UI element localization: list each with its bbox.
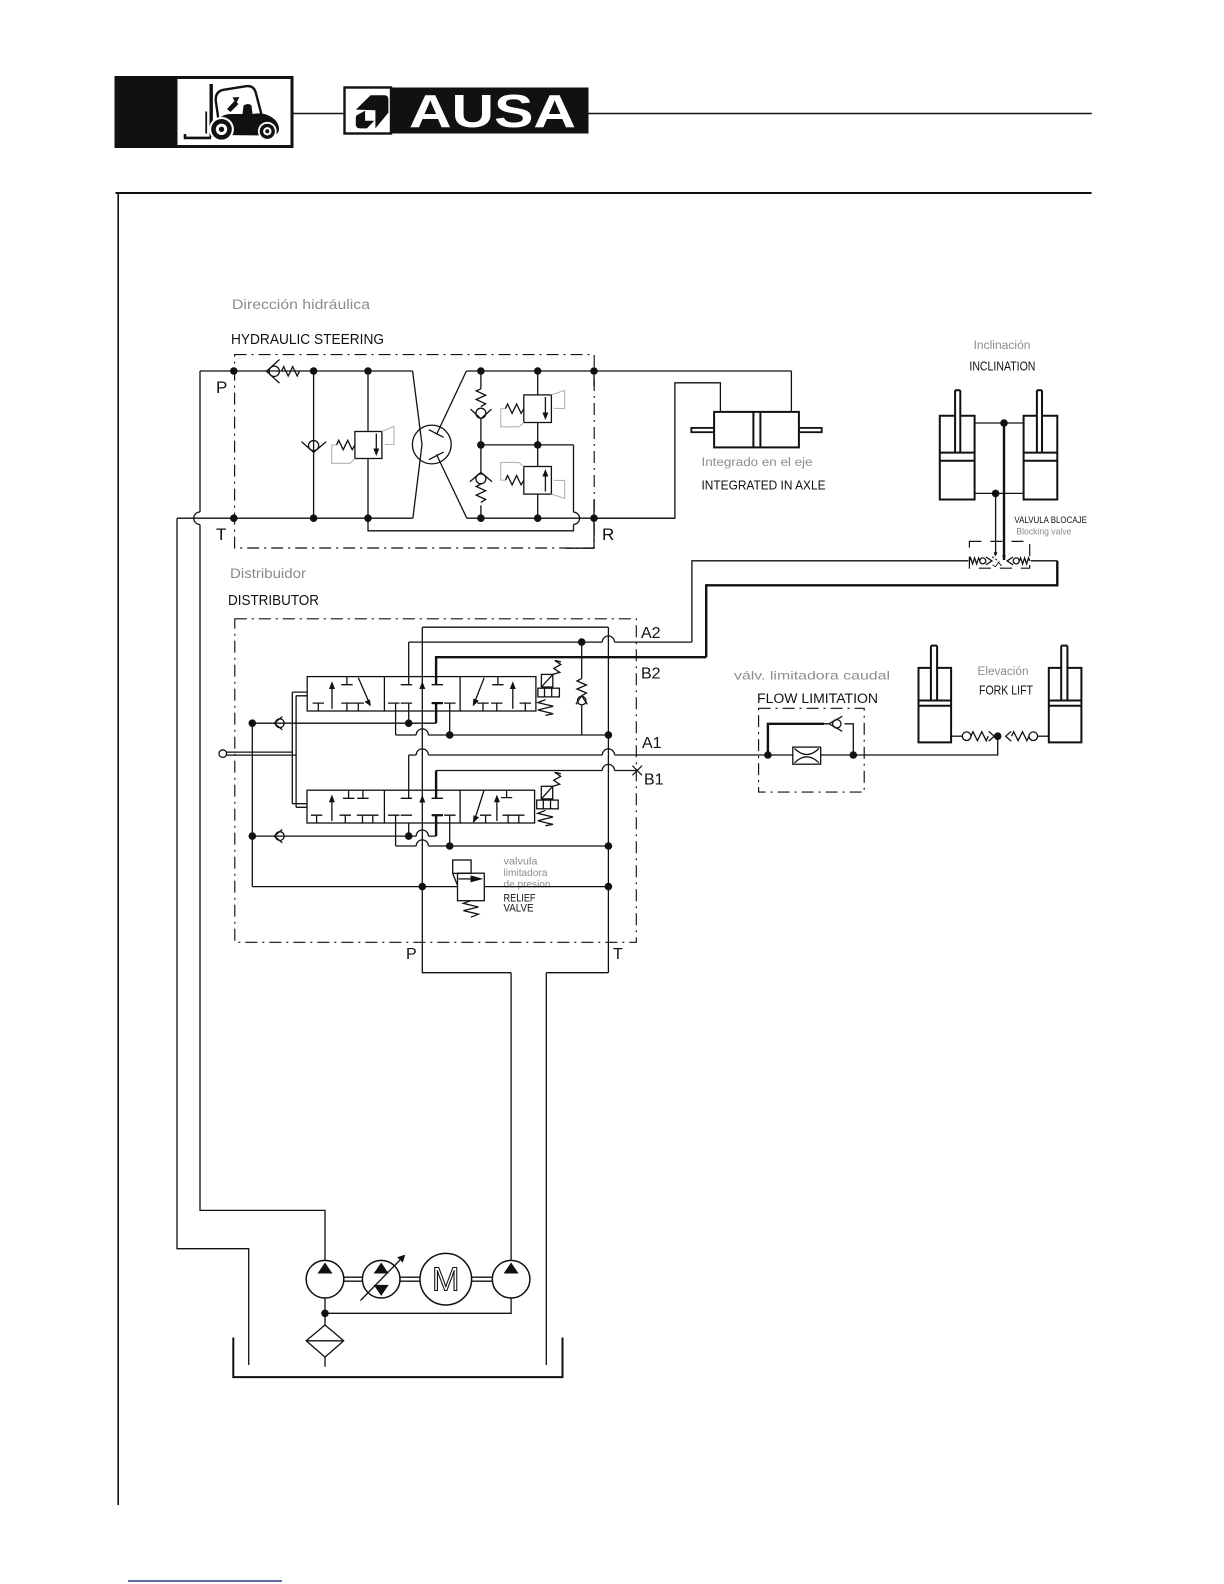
suction line [325, 1298, 511, 1313]
junction dots distributor [249, 638, 772, 890]
svg-text:A2: A2 [641, 625, 661, 642]
frame left rule [117, 192, 119, 1505]
upper S1 up arrow [331, 687, 333, 709]
blocking valve right spring [1019, 558, 1029, 564]
flow limitation dashed box [759, 708, 865, 792]
stem A2 to upper bank [408, 642, 410, 684]
steering cylinder (integrated in axle) [691, 412, 821, 448]
frame top rule [116, 192, 1092, 194]
svg-text:limitadora: limitadora [504, 868, 548, 879]
wire P gallery vertical (through both banks) [421, 627, 423, 886]
AUSA logo icon glyph [356, 95, 389, 128]
relief valve column right [501, 371, 565, 518]
check valve CV2 on branch 1 [302, 441, 327, 453]
check valve to A2 node [576, 642, 588, 735]
lower S2 bottom port bars [388, 814, 456, 816]
svg-text:Dirección hidráulica: Dirección hidráulica [232, 297, 371, 312]
relief valve RV3 [524, 467, 552, 495]
steering wheel [227, 101, 239, 113]
wire relief gallery [252, 886, 608, 888]
wire A2 feed to blocking valve [692, 561, 969, 642]
svg-text:M: M [432, 1261, 460, 1298]
wire hop wire2 over P gallery [416, 729, 428, 735]
wire P out to axle [790, 371, 792, 412]
wire hop P-rail over T-wire [194, 512, 200, 525]
svg-text:VALVE: VALVE [504, 903, 534, 915]
check valve CV1 on P line [267, 360, 300, 384]
flow restrictor [793, 747, 821, 764]
blocking valve right check [1013, 558, 1019, 564]
wire check column [480, 371, 482, 518]
wire T down to port [546, 972, 608, 974]
main relief valve [453, 860, 485, 917]
wire vertical branch 1 [313, 371, 315, 518]
tank [233, 1338, 562, 1378]
wire T rail down-left (to tank) [177, 518, 249, 1365]
lower S1 top port bars [343, 790, 369, 798]
wire P line right segment [466, 370, 791, 372]
footer blue rule [128, 1580, 282, 1582]
body [214, 104, 280, 136]
relief valve RV1 [332, 426, 394, 463]
wire hop wire1-lower over P gallery [416, 830, 428, 836]
wire T line left segment [177, 517, 413, 519]
svg-text:INCLINATION: INCLINATION [969, 360, 1035, 374]
check valve column (shock valves) [470, 371, 492, 518]
pump 1 (steering) [306, 1260, 344, 1298]
electric motor M [420, 1253, 472, 1305]
wire P down to port [422, 887, 511, 973]
inlet port circle [219, 750, 227, 758]
lower S2 top port bars [401, 797, 443, 799]
forklift rear wheel [258, 122, 277, 141]
svg-text:válv. limitadora caudal: válv. limitadora caudal [734, 669, 890, 683]
wire through restrictor [768, 754, 853, 756]
wire bold center down to blocking valve [1003, 423, 1005, 560]
upper S1 diagonal arrow [358, 678, 368, 701]
inlet rail to lower bank [292, 804, 307, 808]
relief valve RV2 [524, 395, 552, 423]
svg-text:P: P [406, 946, 417, 963]
svg-text:INTEGRATED IN AXLE: INTEGRATED IN AXLE [702, 479, 826, 493]
inlet rail vertical pair [292, 692, 296, 807]
stem upper S2 bottom to wire1 [408, 703, 410, 724]
bypass check line (bold) [768, 724, 824, 755]
tilt cylinder left [940, 390, 975, 499]
wire thin down to blocking valve [995, 493, 997, 552]
check valve CV3 [476, 408, 486, 418]
junction dots flow [850, 732, 1002, 758]
fork cylinder left [919, 646, 952, 743]
svg-text:AUSA: AUSA [409, 85, 576, 137]
wire A2 [409, 641, 692, 643]
upper S3 up arrow [512, 687, 514, 709]
steering unit bowtie right-top line [437, 371, 467, 435]
stem upper S2 outer bottoms to wire2 [396, 703, 450, 736]
lower S3 top port bar [501, 790, 512, 797]
upper S3 diagonal arrow [475, 678, 484, 701]
junction dots tilt [992, 419, 1008, 497]
pilot check valve upper [274, 717, 284, 730]
tilt cylinder right [1024, 390, 1058, 499]
svg-text:Blocking valve: Blocking valve [1016, 527, 1071, 537]
stem lower S2 outer bottom to wire2-lower [449, 815, 451, 846]
svg-text:valvula: valvula [504, 857, 538, 868]
steering unit tick bottom [429, 452, 444, 460]
svg-text:R: R [602, 525, 614, 544]
svg-text:T: T [216, 525, 226, 544]
wire blocking right port link [1031, 560, 1058, 562]
upper bank solenoid actuator [538, 660, 561, 715]
AUSA logo icon box [345, 88, 392, 134]
pump 2 (distributor) [492, 1260, 530, 1298]
steering unit rotor circle [412, 425, 451, 464]
wire tilt bottom ports [975, 492, 1024, 494]
lower S1 up arrow [331, 800, 333, 822]
svg-text:DISTRIBUTOR: DISTRIBUTOR [228, 593, 319, 609]
junction dot suction [321, 1310, 329, 1318]
forklift icon [185, 84, 279, 138]
mast [209, 84, 212, 137]
upper S2 top port bars [401, 684, 443, 686]
blocking valve left spring [969, 558, 980, 564]
svg-text:Inclinación: Inclinación [974, 340, 1031, 352]
pilot check valve lower [274, 830, 284, 843]
wire B2 feed to blocking valve (bold) [706, 561, 1057, 657]
svg-text:de presion: de presion [504, 880, 551, 891]
wire2 lower (to T gallery) [396, 815, 609, 846]
fork [185, 134, 211, 138]
wire open-center top link [422, 626, 608, 628]
forklift badge outer box [116, 78, 292, 147]
steering unit bowtie right-bottom line [437, 455, 467, 519]
forklift badge black panel [115, 76, 178, 148]
wire R stub at box edge [566, 371, 594, 548]
upper S2 up arrowhead (P) [419, 681, 425, 689]
svg-text:T: T [613, 946, 623, 963]
wire A1 to fork cylinders [853, 736, 997, 755]
shaft motor-pump2 [472, 1277, 493, 1281]
svg-text:Integrado en el eje: Integrado en el eje [702, 457, 813, 469]
svg-text:HYDRAULIC STEERING: HYDRAULIC STEERING [231, 332, 384, 348]
blocking valve dashed box [969, 541, 1029, 568]
wire T return to tank [545, 973, 547, 1365]
lower bank solenoid actuator [537, 772, 561, 825]
shaft variable-motor [400, 1277, 420, 1281]
stem A1 into lower bank [408, 755, 410, 798]
lower S3 diagonal arrow [475, 790, 484, 818]
upper S2 bottom port bars [388, 702, 456, 704]
valve bank upper body [307, 677, 536, 711]
wire hop A1 over P gallery [416, 749, 428, 755]
stem lower S2 bottom to wire1-lower [408, 823, 410, 836]
svg-text:P: P [216, 378, 227, 397]
inlet rail to upper bank [292, 692, 307, 696]
valve bank lower body [307, 790, 535, 823]
plug X on B1 [632, 766, 642, 776]
fork cylinder right [1049, 646, 1082, 743]
wire hop wire2-lower over P gallery [416, 840, 428, 846]
lower S3 up arrow [496, 800, 498, 821]
svg-text:VALVULA BLOCAJE: VALVULA BLOCAJE [1014, 515, 1087, 525]
shaft pump1-variable [344, 1277, 363, 1281]
spring bottom check [476, 484, 485, 502]
wire P rail down-left (to pump) [200, 371, 325, 1260]
upper S1 top port bar [341, 677, 352, 685]
wire B2 bold [436, 657, 706, 684]
spring top check [476, 389, 485, 407]
wire hop bypass over T-wire [574, 512, 580, 524]
junction dots steering [230, 367, 598, 522]
stem lower S2 bold bottom [435, 815, 437, 836]
wire vertical branch 2 (relief) [367, 371, 369, 518]
lower S1 bottom port bars [311, 815, 379, 823]
AUSA logo black panel [392, 88, 589, 134]
velocity fuse left [951, 731, 994, 741]
stem upper S2 bold bottom [435, 703, 437, 724]
distributor dashed enclosure [235, 619, 637, 943]
upper S1 bottom port bars [313, 703, 364, 711]
svg-text:B1: B1 [644, 772, 664, 789]
wire2 upper (to T gallery) [396, 734, 609, 736]
header rule right [589, 113, 1092, 115]
wire A1 [409, 754, 768, 756]
wire hop B1 over T gallery [602, 764, 614, 770]
wire mid-link bypass down [368, 445, 574, 531]
blocking valve left check [980, 558, 986, 564]
blocking valve pilot lines [993, 553, 1000, 562]
header connector line left [292, 113, 345, 115]
wire P riser to pump2 [510, 973, 512, 1261]
upper S3 bottom port bars [477, 703, 531, 711]
steering unit tick top [429, 430, 444, 438]
wire T line right segment [467, 517, 675, 519]
svg-text:A1: A1 [642, 735, 662, 752]
wire T gallery vertical right [607, 627, 609, 973]
suction filter [324, 1313, 326, 1366]
svg-text:B2: B2 [641, 666, 661, 683]
forklift front wheel [209, 117, 234, 142]
steering dashed enclosure [235, 355, 595, 548]
wire1 upper (to pilot check) [252, 722, 436, 724]
wire B1 [436, 770, 637, 772]
svg-text:FLOW LIMITATION: FLOW LIMITATION [757, 691, 878, 706]
steering unit bowtie left lines [413, 371, 422, 518]
wire hop A1 over T gallery [602, 749, 614, 755]
inlet double pipe [227, 752, 297, 755]
wire tilt top ports [975, 422, 1024, 424]
variable displacement unit [362, 1260, 400, 1298]
svg-text:Distribuidor: Distribuidor [230, 566, 307, 581]
wire pilot gallery vertical left [251, 723, 253, 886]
stem B1 bold into lower bank [435, 771, 437, 799]
wire relief column [537, 371, 539, 518]
svg-text:FORK LIFT: FORK LIFT [979, 684, 1033, 698]
canopy outline [216, 86, 263, 127]
upper S3 top port bar [492, 677, 503, 685]
check valve CV4 [470, 472, 492, 481]
lower S2 up arrowhead (P) [419, 795, 425, 803]
wire R out to axle [594, 383, 720, 518]
velocity fuse right [1006, 731, 1049, 741]
lower S3 bottom port bars [480, 815, 525, 823]
wire hop A2 over T gallery [602, 636, 614, 642]
wire P line left segment [200, 370, 413, 372]
wire mid link [481, 444, 574, 446]
wire1 lower (to pilot check) [252, 835, 436, 837]
bypass check valve [829, 716, 842, 731]
svg-text:Elevación: Elevación [978, 666, 1029, 678]
